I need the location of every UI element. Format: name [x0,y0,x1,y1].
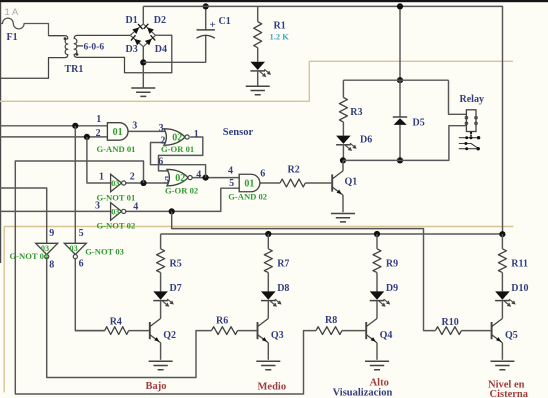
relay contacts [459,137,480,139]
junction bridge bottom [140,59,146,65]
gate G-OR 02 [167,169,188,185]
svg-text:01: 01 [113,127,123,138]
transistor Q2 [149,322,151,339]
svg-text:6-0-6: 6-0-6 [84,42,105,52]
wire sensor input 2 [0,136,107,138]
svg-text:G-NOT 02: G-NOT 02 [97,220,136,230]
diode bridge diamond [130,24,155,47]
svg-text:R3: R3 [350,107,362,118]
relay coil [466,110,476,132]
gate G-NOT 02 [111,203,122,221]
ground Q1 [331,214,355,222]
wire Q3 emitter [267,343,269,360]
diode D5 [394,118,407,125]
wire stage supply rail [161,233,503,235]
wire sensor input 3 [0,188,47,243]
svg-text:Q2: Q2 [163,330,176,341]
wire R1 top [257,6,259,21]
svg-text:R8: R8 [325,315,337,326]
resistor R6 [212,327,238,335]
LED D7 [153,291,168,299]
junction rail R9 [374,231,380,237]
junction rail R11 [499,231,505,237]
junction Q1 collector node [340,157,346,163]
svg-text:1 A: 1 A [5,7,19,18]
ground below bridge [131,88,155,96]
svg-text:Q4: Q4 [380,330,393,341]
wire C1 branch [143,6,205,62]
gate G-AND 01 [107,123,128,140]
transformer TR1 primary phase dot [64,37,67,40]
svg-text:Cisterna: Cisterna [490,389,529,398]
svg-text:G-OR 01: G-OR 01 [161,144,194,154]
window left border [0,2,2,263]
diode D4 [145,39,152,46]
LED D9 [370,291,385,299]
wire OR02 feedback to OR01 pin2 [151,143,206,178]
svg-text:6: 6 [260,169,265,180]
wire R5 top [160,234,162,249]
wire D5 vertical [399,80,401,160]
wire R4 feed [75,330,104,332]
junction NOT02 out [169,208,175,214]
wire R6 to Q3 [238,330,257,332]
svg-text:G-AND 01: G-AND 01 [97,144,136,154]
svg-text:D1: D1 [126,15,138,26]
svg-text:4: 4 [133,201,138,212]
svg-text:9: 9 [49,228,54,239]
transistor Q4 [365,322,367,339]
svg-text:G-NOT 01: G-NOT 01 [97,192,136,202]
wire LED to ground [257,71,259,86]
svg-text:8: 8 [49,260,54,271]
transistor Q1 [331,174,333,191]
svg-text:R5: R5 [170,259,182,270]
wire D8 to Q3 collector [267,301,269,319]
svg-text:D10: D10 [511,283,528,294]
resistor R3 [339,98,347,123]
wire AND01 output [128,130,167,132]
svg-text:+: + [210,19,216,31]
junction OR02 out [203,175,209,181]
wire NOT01 out to OR02 pin5 [126,182,170,184]
svg-text:1: 1 [96,114,101,125]
svg-text:Q1: Q1 [345,177,358,188]
window top border [0,0,548,2]
wire R10 to Q5 [461,330,490,332]
wire R3 to D6 [342,122,344,136]
wire bridge top to rail [142,6,144,24]
junction top rail D5 [397,3,403,9]
resistor R4 [105,327,129,335]
gate G-NOT 03 [64,243,86,254]
wire NOT01 out to stage3 [15,161,316,394]
resistor R9 [373,249,381,273]
svg-text:C1: C1 [219,16,231,27]
svg-text:Visualizacion: Visualizacion [333,388,393,398]
junction input 2 [84,134,90,140]
LED D6 [336,136,351,144]
wire supply sub-rail [343,79,448,81]
wire R2 to Q1 base [305,182,331,184]
transformer TR1 primary [0,36,68,79]
wire NOT04 output to stage2 [47,256,212,377]
wire Q1 emitter [342,195,344,212]
wire R7 to D8 [267,273,269,292]
svg-text:F1: F1 [7,32,18,43]
svg-text:2: 2 [96,128,101,139]
svg-text:R4: R4 [110,316,122,327]
svg-text:Q3: Q3 [271,330,284,341]
fuse F1 [0,18,65,35]
svg-text:4: 4 [196,169,201,180]
wire AND02 out to R2 [260,182,280,184]
svg-text:03: 03 [111,208,119,217]
svg-text:D6: D6 [360,135,372,146]
junction C1 top [203,3,209,9]
LED below R1 [250,62,265,70]
tan highlight path upper [0,61,513,101]
svg-text:4: 4 [228,165,233,176]
svg-text:1.2 K: 1.2 K [270,32,290,42]
diode D1 [132,28,139,35]
wire OR02 output [192,177,239,179]
svg-text:R9: R9 [386,259,398,270]
svg-text:1: 1 [99,172,104,183]
diode D2 [147,27,154,34]
gate G-OR 01 [164,129,185,145]
resistor R10 [435,327,461,335]
svg-text:D2: D2 [154,15,166,26]
transistor Q5 [491,322,493,339]
svg-text:G-AND 02: G-AND 02 [228,192,267,202]
svg-text:Medio: Medio [258,381,287,392]
wire R4 to Q2 [129,330,149,332]
svg-text:5: 5 [79,228,84,239]
svg-text:3: 3 [132,120,137,131]
wire sensor input 1 [0,125,107,127]
svg-text:1: 1 [194,129,199,140]
resistor R1 [254,22,262,48]
svg-text:03: 03 [70,244,78,253]
resistor R5 [157,249,165,273]
capacitor C1 [197,29,215,31]
svg-text:Relay: Relay [460,94,484,105]
svg-text:D9: D9 [386,283,398,294]
ground Q3 [256,361,280,369]
svg-text:TR1: TR1 [65,64,84,75]
wire R3 top [342,80,344,97]
wire NOT02 output [126,188,240,211]
LED D10 [495,291,510,299]
ground Q2 [149,361,173,369]
ground Q5 [490,361,514,369]
svg-text:R10: R10 [442,317,459,328]
wire collector node rail [343,126,466,161]
resistor R2 [280,179,305,187]
wire D9 to Q4 collector [376,301,378,319]
junction rail R7 [265,231,271,237]
svg-text:D3: D3 [126,44,138,55]
wire D7 to Q2 collector [160,301,162,319]
wire R8 to Q4 [342,330,365,332]
svg-text:Sensor: Sensor [223,127,254,138]
svg-text:D4: D4 [155,44,167,55]
gate G-AND 02 [239,174,260,192]
wire bridge bottom to ground [142,47,144,88]
transformer TR1 secondary [74,35,172,73]
svg-text:2: 2 [130,172,135,183]
svg-text:6: 6 [158,157,163,168]
transformer TR1 secondary phase dot [76,53,79,56]
wire R11 top [501,234,503,249]
wire D5 branch top [399,6,401,80]
svg-text:03: 03 [111,179,119,188]
junction input 1 [72,123,78,129]
gate G-NOT 04 [36,243,58,254]
svg-text:D8: D8 [277,283,289,294]
svg-text:D5: D5 [413,117,425,128]
svg-text:G-NOT 03: G-NOT 03 [85,247,124,257]
junction supply sub-rail [397,77,403,83]
tan highlight path lower [4,227,513,393]
svg-text:Q5: Q5 [505,330,518,341]
wire Q4 emitter [376,343,378,360]
diode D3 [134,39,141,46]
wire NOT02 out to stage4 [172,211,436,330]
wire Q5 emitter [501,343,503,360]
wire D10 to Q5 collector [501,301,503,319]
wire input2 to G-NOT01 [87,137,111,183]
wire R1 to LED [257,48,259,62]
svg-text:02: 02 [172,133,182,144]
wire R11 to D10 [501,273,503,292]
resistor R7 [264,249,272,273]
transformer TR1 center tap [76,45,83,47]
wire R9 to D9 [376,273,378,292]
wire Q2 emitter [160,343,162,360]
svg-text:R7: R7 [277,259,289,270]
svg-text:R2: R2 [288,165,300,176]
wire top supply rail [143,6,502,234]
junction NOT01 out [140,180,146,186]
junction D5 bottom [397,157,403,163]
svg-text:R6: R6 [216,316,228,327]
gate G-NOT 01 [111,174,122,192]
wire NOT03 output to stage1 [75,256,104,330]
wire OR01 output loop [159,137,203,171]
wire D6 to collector node [342,145,344,161]
transistor Q3 [257,322,259,339]
wire sensor input 4 [0,210,111,212]
wire R5 to D7 [160,273,162,292]
svg-text:D7: D7 [170,283,182,294]
ground below LED [246,86,270,94]
wire input1 to G-NOT03 [74,126,76,244]
resistor R8 [316,327,342,335]
svg-text:6: 6 [79,259,84,270]
resistor R11 [498,249,506,273]
LED D8 [261,291,276,299]
svg-text:Bajo: Bajo [146,381,167,392]
svg-text:02: 02 [175,173,185,184]
wire R7 top [267,234,269,249]
svg-text:3: 3 [95,200,100,211]
svg-text:R11: R11 [511,259,528,270]
ground Q4 [365,361,389,369]
wire R9 top [376,234,378,249]
svg-text:R1: R1 [274,21,286,32]
svg-text:01: 01 [244,179,254,190]
svg-text:3: 3 [159,123,164,134]
svg-text:5: 5 [229,178,234,189]
wire Q1 collector [342,160,344,171]
wire relay coil top [449,80,467,114]
svg-text:G-OR 02: G-OR 02 [165,186,198,196]
